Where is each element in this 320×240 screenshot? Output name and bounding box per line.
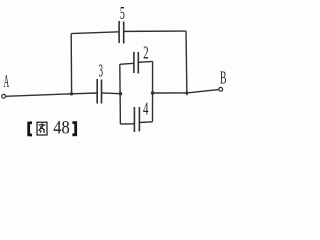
caption glyph TU (figure) (37, 122, 47, 135)
wire right vertical of top loop (185, 31, 188, 95)
svg-text:48: 48 (53, 118, 70, 139)
capacitor C3 left plate (96, 79, 98, 104)
wire C5 to top-right corner (124, 30, 186, 32)
junction dot 3 (185, 91, 188, 94)
capacitor C2 right plate (137, 52, 139, 74)
junction dot 2 (119, 92, 122, 95)
wire top branch left to C2 (120, 63, 134, 64)
wire A to junction 1 (6, 94, 72, 97)
terminal A (2, 94, 6, 98)
wire C2 to right vertical (138, 60, 152, 63)
svg-text:2: 2 (143, 43, 149, 63)
wire left vertical of parallel box (119, 64, 122, 124)
wire junction 3 to terminal B (187, 90, 219, 93)
capacitor C4 right plate (138, 107, 140, 132)
junction dot 4 (151, 91, 154, 94)
svg-text:B: B (220, 68, 227, 88)
wire left vertical of top loop (70, 34, 72, 94)
wire junction 1 to C3 (72, 92, 98, 95)
wire right vertical of parallel box (152, 61, 154, 121)
capacitor C5 left plate (118, 21, 120, 43)
svg-text:4: 4 (143, 99, 149, 119)
capacitor C3 right plate (101, 80, 103, 104)
wire junction 4 to junction 3 (153, 92, 187, 94)
wire C4 to bottom-right corner (139, 121, 152, 124)
capacitor C2 left plate (133, 52, 135, 73)
wire bottom branch left to C4 (120, 123, 134, 125)
svg-text:3: 3 (99, 61, 104, 81)
capacitor C5 right plate (123, 22, 125, 44)
svg-text:5: 5 (120, 3, 125, 23)
wire C3 to junction 2 (102, 92, 121, 95)
svg-text:A: A (4, 71, 10, 91)
caption bracket right (72, 121, 77, 136)
junction dot 1 (70, 92, 73, 95)
wire top-left to C5 (70, 33, 72, 36)
caption bracket left (27, 121, 32, 136)
terminal B (219, 87, 223, 91)
capacitor C4 left plate (133, 107, 135, 132)
